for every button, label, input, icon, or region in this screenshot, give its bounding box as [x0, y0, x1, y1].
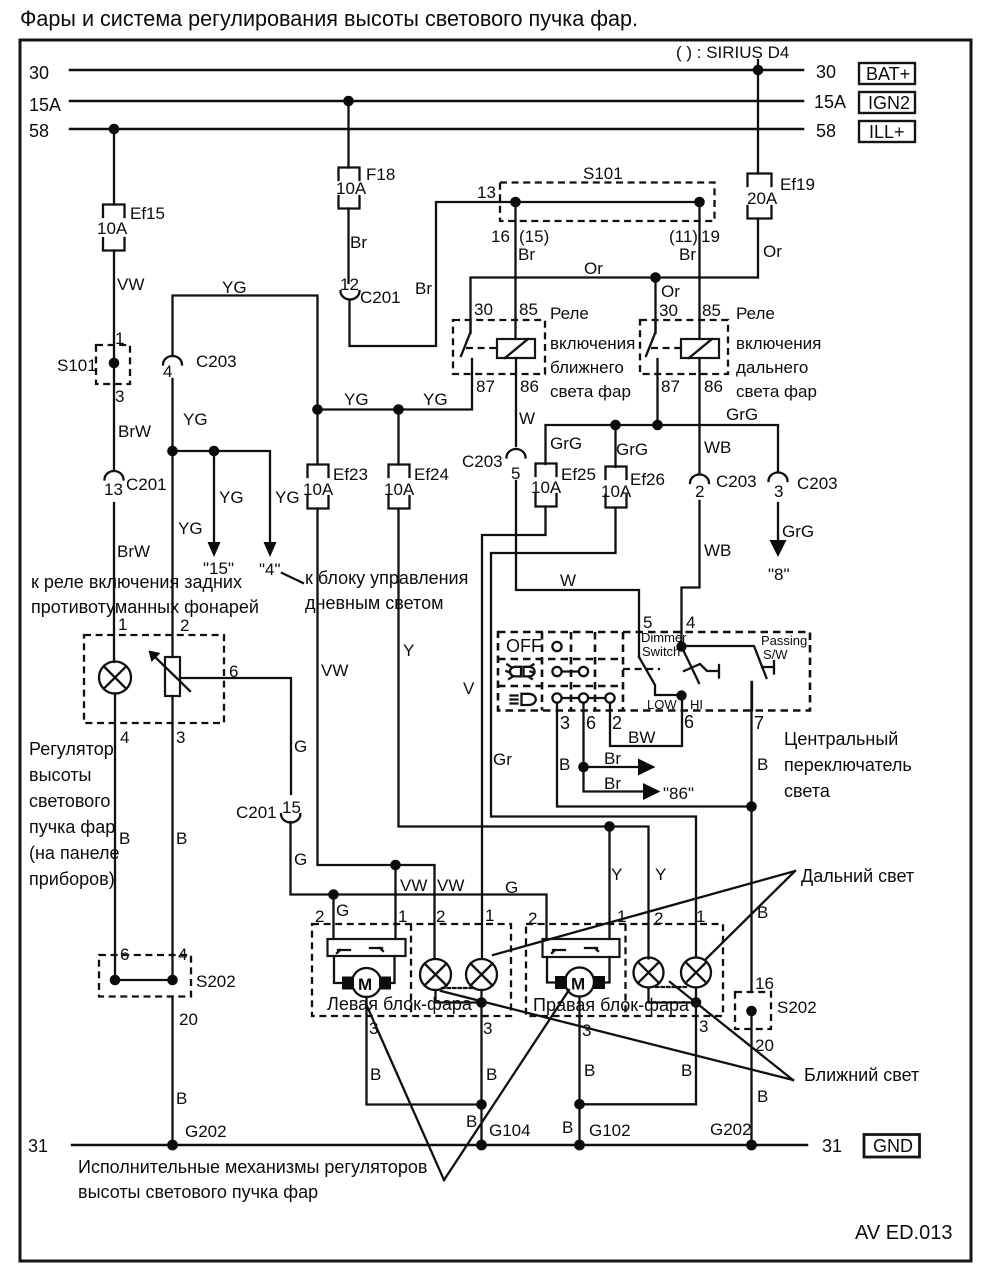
wire B: light switch pin3 and pin7 to S202	[557, 682, 752, 807]
svg-text:YG: YG	[178, 519, 203, 538]
svg-text:света фар: света фар	[550, 382, 631, 401]
svg-text:10A: 10A	[531, 478, 562, 497]
svg-text:G: G	[505, 878, 518, 897]
svg-text:30: 30	[474, 300, 493, 319]
svg-text:Br: Br	[518, 245, 535, 264]
svg-text:Ef26: Ef26	[630, 470, 665, 489]
svg-text:GrG: GrG	[726, 405, 758, 424]
junction dot bus15A/F18	[343, 96, 354, 107]
dimmer switch	[623, 613, 719, 712]
wire Br: S101-19 to relay2 85	[698, 202, 700, 339]
wire Br: S101-16 to relay1 85	[514, 202, 516, 339]
wire Gr: Ef26 to right headlamp high beam bulb	[491, 508, 696, 958]
bus 58	[70, 128, 803, 131]
svg-text:G: G	[294, 850, 307, 869]
svg-text:YG: YG	[183, 410, 208, 429]
svg-text:3: 3	[115, 387, 124, 406]
lamp: right high beam bulb	[681, 958, 711, 988]
label relay2	[736, 304, 821, 401]
svg-text:BrW: BrW	[117, 542, 150, 561]
wire Or: bus30 to relays 30	[471, 70, 759, 333]
svg-text:Ef15: Ef15	[130, 204, 165, 223]
svg-text:VW: VW	[437, 876, 464, 895]
node ILL+	[859, 121, 915, 142]
right headlamp assembly (dashed box)	[526, 907, 723, 1016]
svg-text:3: 3	[560, 713, 570, 733]
svg-text:Br: Br	[679, 245, 696, 264]
svg-text:F18: F18	[366, 165, 395, 184]
wire YG: C203-4 down to leveling rheostat pin 2	[171, 379, 173, 657]
wire GrG: relay2 87 rail to fuses Ef25/Ef26 and C203-3	[546, 359, 779, 471]
svg-text:Gr: Gr	[493, 750, 512, 769]
svg-text:13: 13	[477, 183, 496, 202]
switch block: central light switch + dimmer (dashed housing)	[498, 632, 810, 711]
svg-text:B: B	[559, 755, 570, 774]
lamp: regulator illumination bulb	[99, 662, 131, 694]
node IGN2	[859, 92, 915, 113]
rheostat R1 (leveling regulator)	[149, 651, 191, 697]
junction S202 (right)	[735, 974, 817, 1055]
svg-text:C201: C201	[360, 288, 401, 307]
svg-text:Or: Or	[584, 259, 603, 278]
svg-text:86: 86	[704, 377, 723, 396]
svg-text:Ef19: Ef19	[780, 175, 815, 194]
junction dot bus30/Ef19	[753, 65, 764, 76]
wire VW: Ef23 to left headlamp actuator	[318, 410, 435, 959]
arrow to net 8	[770, 540, 787, 557]
svg-text:дневным светом: дневным светом	[305, 593, 443, 613]
node GND	[864, 1135, 920, 1158]
junction dot YG/Ef23	[312, 404, 323, 415]
dotted link between right bulbs	[656, 986, 688, 988]
svg-text:Or: Or	[661, 282, 680, 301]
svg-text:13: 13	[104, 480, 123, 499]
svg-text:M: M	[571, 975, 585, 994]
svg-text:15: 15	[282, 798, 301, 817]
svg-text:к блоку управления: к блоку управления	[305, 568, 468, 588]
svg-text:85: 85	[519, 300, 538, 319]
svg-text:6: 6	[684, 712, 694, 732]
svg-text:86: 86	[520, 377, 539, 396]
svg-text:YG: YG	[423, 390, 448, 409]
fuse F18	[336, 165, 395, 209]
wire WB: relay2 86 via C203-2 to dimmer pin 4	[682, 358, 700, 646]
label leveling actuators	[78, 1157, 427, 1202]
svg-text:S101: S101	[583, 164, 623, 183]
svg-text:Регулятор: Регулятор	[29, 739, 114, 759]
fuse Ef15	[97, 204, 165, 251]
svg-text:4: 4	[163, 362, 172, 381]
svg-text:3: 3	[774, 482, 783, 501]
svg-text:B: B	[681, 1061, 692, 1080]
fuse Ef24	[384, 465, 449, 509]
svg-text:ближнего: ближнего	[550, 358, 624, 377]
svg-text:3: 3	[176, 728, 185, 747]
svg-text:58: 58	[816, 121, 836, 141]
connector C203 pin 2	[690, 472, 757, 501]
svg-text:YG: YG	[275, 488, 300, 507]
actuator connector plate right	[543, 939, 620, 957]
svg-text:пучка фар: пучка фар	[29, 817, 115, 837]
svg-text:G102: G102	[589, 1121, 631, 1140]
motor M left actuator	[334, 956, 395, 997]
pointer line to left actuator motor	[367, 1005, 445, 1180]
svg-text:GrG: GrG	[550, 434, 582, 453]
svg-text:C203: C203	[196, 352, 237, 371]
svg-text:87: 87	[476, 377, 495, 396]
arrow to net 4	[264, 542, 277, 557]
connector C203 pin 5	[462, 449, 526, 483]
svg-text:B: B	[119, 829, 130, 848]
label to rear fog lamp relay	[31, 572, 259, 617]
motor M right actuator	[547, 957, 610, 997]
svg-text:20A: 20A	[747, 189, 778, 208]
wire GrG to net 8 arrow	[777, 503, 779, 540]
svg-text:B: B	[584, 1061, 595, 1080]
svg-text:58: 58	[29, 121, 49, 141]
svg-text:S/W: S/W	[763, 647, 788, 662]
connector C203 pin 4	[163, 352, 237, 381]
label relay1	[550, 304, 635, 401]
wire B: S202-20 to ground G202 left	[171, 997, 173, 1146]
svg-text:C201: C201	[126, 475, 167, 494]
svg-text:2: 2	[695, 482, 704, 501]
svg-text:15A: 15A	[29, 95, 61, 115]
junction dot YG/Ef24	[393, 404, 404, 415]
wire B: S202 right to ground G202	[750, 807, 752, 1146]
svg-text:Switch: Switch	[642, 644, 680, 659]
connector C201 pin 15	[236, 798, 301, 822]
actuator connector plate left	[328, 939, 406, 956]
svg-text:G104: G104	[489, 1121, 531, 1140]
leveling regulator (dashed box)	[84, 615, 224, 723]
svg-text:B: B	[176, 1089, 187, 1108]
svg-text:10A: 10A	[336, 179, 367, 198]
svg-text:C201: C201	[236, 803, 277, 822]
svg-text:31: 31	[28, 1136, 48, 1156]
svg-text:6: 6	[586, 713, 596, 733]
svg-text:3: 3	[483, 1019, 492, 1038]
lamp: right low beam bulb	[634, 958, 664, 988]
svg-text:C203: C203	[716, 472, 757, 491]
svg-text:Passing: Passing	[761, 633, 807, 648]
junction dot bus58/Ef15	[109, 124, 120, 135]
svg-text:YG: YG	[344, 390, 369, 409]
svg-text:3: 3	[699, 1017, 708, 1036]
svg-text:YG: YG	[222, 278, 247, 297]
svg-text:Дальний свет: Дальний свет	[801, 866, 914, 886]
label central light switch	[784, 729, 912, 801]
wire B: right bulbs pin3 join	[580, 988, 697, 1105]
svg-text:BAT+: BAT+	[866, 64, 910, 84]
fuse Ef19	[747, 174, 815, 219]
svg-text:30: 30	[659, 301, 678, 320]
arrow to net 15	[208, 542, 221, 557]
svg-text:W: W	[519, 409, 535, 428]
svg-text:VW: VW	[117, 275, 144, 294]
svg-text:10A: 10A	[384, 480, 415, 499]
svg-text:Y: Y	[611, 865, 622, 884]
svg-text:2: 2	[612, 713, 622, 733]
svg-text:Br: Br	[604, 749, 621, 768]
svg-text:Левая блок-фара: Левая блок-фара	[327, 994, 473, 1014]
relay U2 (high beam relay)	[640, 301, 728, 396]
svg-text:S202: S202	[196, 972, 236, 991]
svg-text:5: 5	[511, 464, 520, 483]
svg-text:приборов): приборов)	[29, 869, 115, 889]
label к блоку управления	[282, 568, 468, 613]
junction S101 pin1-3	[57, 329, 130, 406]
svg-text:S101: S101	[57, 356, 97, 375]
svg-text:1: 1	[118, 615, 127, 634]
fuse Ef25	[531, 464, 596, 507]
pointer line to right high beam bulb	[705, 871, 795, 960]
svg-text:G202: G202	[710, 1120, 752, 1139]
svg-text:4: 4	[120, 728, 129, 747]
svg-text:VW: VW	[321, 661, 348, 680]
svg-text:10A: 10A	[601, 482, 632, 501]
svg-text:Y: Y	[655, 865, 666, 884]
svg-text:Правая блок-фара: Правая блок-фара	[533, 995, 690, 1015]
svg-text:V: V	[463, 679, 475, 698]
svg-text:Ef23: Ef23	[333, 465, 368, 484]
fuse Ef23	[303, 465, 368, 509]
svg-text:ILL+: ILL+	[869, 122, 905, 142]
wire B: right motor pin3 to ground G102	[578, 997, 580, 1146]
svg-text:S202: S202	[777, 998, 817, 1017]
light switch contacts row1	[552, 642, 561, 651]
svg-text:B: B	[757, 755, 768, 774]
svg-text:G: G	[294, 737, 307, 756]
passing switch	[682, 633, 808, 711]
wire YG: relay1 87 to Ef23/Ef24 rail	[318, 359, 473, 410]
wire SIRIUS stub	[757, 60, 759, 70]
svg-text:дальнего: дальнего	[736, 358, 808, 377]
svg-text:31: 31	[822, 1136, 842, 1156]
svg-text:светового: светового	[29, 791, 110, 811]
svg-text:Or: Or	[763, 242, 782, 261]
svg-text:AV ED.013: AV ED.013	[855, 1222, 952, 1244]
svg-text:HI: HI	[690, 697, 703, 712]
svg-text:15A: 15A	[814, 92, 846, 112]
svg-text:G202: G202	[185, 1122, 227, 1141]
svg-text:LOW: LOW	[647, 697, 677, 712]
svg-text:(11): (11)	[669, 227, 698, 246]
node BAT+	[859, 63, 915, 84]
svg-text:B: B	[176, 829, 187, 848]
connector C201 pin 12	[340, 275, 401, 307]
wire G: rheostat pin6 via C201-15 to headlamp actuators	[180, 678, 547, 939]
svg-text:B: B	[370, 1065, 381, 1084]
svg-text:Ef24: Ef24	[414, 465, 449, 484]
svg-text:1: 1	[485, 906, 494, 925]
pointer line to right low beam bulb	[670, 982, 793, 1080]
svg-text:6: 6	[229, 662, 238, 681]
svg-text:19: 19	[701, 227, 720, 246]
wire B: regulator pins 4,3 down to S202	[115, 694, 173, 981]
svg-text:16: 16	[491, 227, 510, 246]
svg-text:Исполнительные механизмы регул: Исполнительные механизмы регуляторов	[78, 1157, 427, 1177]
svg-text:BrW: BrW	[118, 422, 151, 441]
pointer line to left high beam bulb	[493, 871, 795, 955]
wire Br: bus15A via F18, C201-12 to S101 pin13	[349, 101, 516, 346]
lamp: left high beam bulb	[466, 959, 497, 990]
svg-text:C203: C203	[462, 452, 503, 471]
svg-text:B: B	[757, 1087, 768, 1106]
svg-text:10A: 10A	[303, 480, 334, 499]
svg-text:Центральный: Центральный	[784, 729, 898, 749]
svg-text:"86": "86"	[663, 784, 694, 803]
svg-text:30: 30	[816, 62, 836, 82]
svg-text:света: света	[784, 781, 831, 801]
svg-text:M: M	[358, 975, 372, 994]
svg-text:VW: VW	[400, 876, 427, 895]
svg-text:B: B	[562, 1118, 573, 1137]
icon headlamp	[511, 694, 536, 705]
svg-text:(15): (15)	[519, 227, 549, 246]
connector C201 pin 13	[104, 471, 167, 499]
svg-text:OFF: OFF	[506, 636, 542, 656]
connector S101 (top)	[477, 164, 720, 246]
icon parking lights	[506, 664, 534, 679]
svg-text:3: 3	[582, 1021, 591, 1040]
wire Y: Ef24 to right headlamp	[399, 410, 649, 959]
svg-text:WB: WB	[704, 438, 731, 457]
svg-text:GrG: GrG	[782, 522, 814, 541]
bus 31 (ground)	[72, 1144, 807, 1147]
svg-text:Фары и система регулирования в: Фары и система регулирования высоты свет…	[20, 6, 638, 31]
svg-text:Br: Br	[415, 279, 432, 298]
svg-text:12: 12	[340, 275, 359, 294]
svg-text:включения: включения	[736, 334, 821, 353]
connector C203 pin 3	[769, 473, 838, 502]
bus 15A	[70, 100, 803, 103]
svg-text:Реле: Реле	[550, 304, 589, 323]
light switch contacts row2	[552, 667, 588, 676]
label leveling regulator	[29, 739, 120, 889]
svg-text:GND: GND	[873, 1136, 913, 1156]
wire Br arrows from light switch pin6	[584, 711, 644, 792]
svg-text:GrG: GrG	[616, 440, 648, 459]
svg-text:"4": "4"	[259, 560, 281, 579]
left headlamp assembly (dashed box)	[312, 906, 511, 1016]
wire YG branch to "15" and "4" arrows	[173, 451, 271, 542]
svg-text:переключатель: переключатель	[784, 755, 912, 775]
svg-text:30: 30	[29, 63, 49, 83]
svg-text:высоты светового пучка фар: высоты светового пучка фар	[78, 1182, 318, 1202]
svg-text:"8": "8"	[768, 565, 790, 584]
svg-text:WB: WB	[704, 541, 731, 560]
svg-text:включения: включения	[550, 334, 635, 353]
svg-text:10A: 10A	[97, 219, 128, 238]
svg-text:Br: Br	[604, 774, 621, 793]
svg-text:5: 5	[643, 613, 652, 632]
wire B: left bulbs pin3 to ground G104	[436, 990, 482, 1145]
svg-text:YG: YG	[219, 488, 244, 507]
svg-text:B: B	[486, 1065, 497, 1084]
svg-text:Br: Br	[350, 233, 367, 252]
bus 30	[70, 69, 803, 72]
svg-text:4: 4	[686, 613, 695, 632]
fuse Ef26	[601, 467, 665, 508]
svg-text:G: G	[336, 901, 349, 920]
wire BW: light switch pin2 to dimmer pin6	[610, 696, 682, 746]
pointer line to right actuator motor	[444, 990, 569, 1180]
wire V: Ef25 to left headlamp high beam bulb	[482, 507, 546, 959]
svg-text:20: 20	[179, 1010, 198, 1029]
svg-text:W: W	[560, 571, 576, 590]
svg-text:85: 85	[702, 301, 721, 320]
svg-text:света фар: света фар	[736, 382, 817, 401]
svg-text:B: B	[466, 1112, 477, 1131]
wire VW/BrW: bus58 via Ef15, S101, C201-13 to leveling bulb	[113, 129, 115, 662]
wire YG top: C203-4 branch	[173, 296, 318, 410]
svg-text:C203: C203	[797, 474, 838, 493]
junction S202 (instrument panel side)	[99, 945, 236, 1029]
junction dot Or/relay2-30	[650, 272, 661, 283]
svg-text:BW: BW	[628, 728, 655, 747]
pointer line to left low beam bulb	[441, 991, 793, 1080]
lamp: left low beam bulb	[420, 959, 451, 990]
svg-text:Y: Y	[403, 641, 414, 660]
light switch contacts row3	[552, 693, 614, 711]
svg-text:( ) : SIRIUS D4: ( ) : SIRIUS D4	[676, 43, 789, 62]
svg-text:(на панеле: (на панеле	[29, 843, 120, 863]
svg-text:противотуманных фонарей: противотуманных фонарей	[31, 597, 259, 617]
svg-text:Реле: Реле	[736, 304, 775, 323]
svg-text:Ef25: Ef25	[561, 465, 596, 484]
svg-text:Ближний свет: Ближний свет	[804, 1065, 919, 1085]
relay U1 (low beam relay)	[453, 300, 545, 396]
svg-text:16: 16	[755, 974, 774, 993]
svg-text:к реле включения задних: к реле включения задних	[31, 572, 242, 592]
wire W: relay1 86 via C203-5 to dimmer switch pin 5	[516, 358, 639, 657]
svg-text:высоты: высоты	[29, 765, 92, 785]
svg-text:2: 2	[180, 616, 189, 635]
svg-text:IGN2: IGN2	[868, 93, 910, 113]
wire B: left motor pin3 to ground	[367, 997, 482, 1105]
dotted link between left bulbs	[442, 987, 475, 989]
svg-text:87: 87	[661, 377, 680, 396]
svg-text:7: 7	[754, 713, 764, 733]
